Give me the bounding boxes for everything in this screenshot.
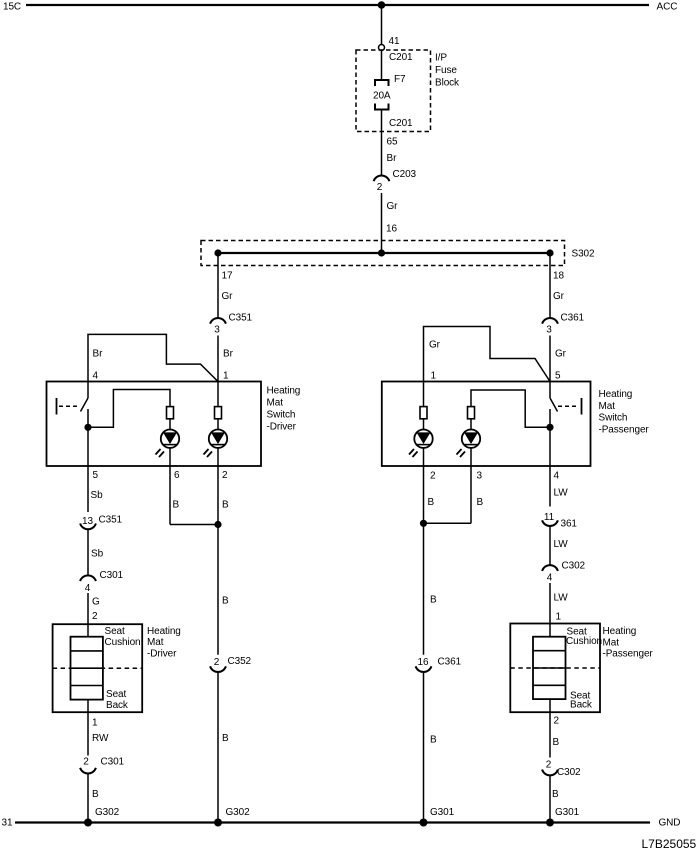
switch SW2 actuator T-bar [581,398,583,415]
svg-text:Cushion: Cushion [105,637,141,648]
resistor in pin 2 branch right [420,407,427,419]
svg-text:6: 6 [174,470,180,481]
svg-text:G301: G301 [430,807,455,818]
pin 41 terminal [379,45,385,51]
ground junction G302 driver switch [214,819,222,827]
svg-text:2: 2 [430,471,436,482]
svg-text:C203: C203 [393,169,417,180]
wire pin 6 down [169,466,171,525]
LED indicator pin 3 branch [457,430,481,458]
wire resistor to LED pin6 branch [169,419,171,430]
svg-text:-Driver: -Driver [267,422,297,433]
svg-text:Br: Br [93,349,104,360]
wire pin 4 into switch [87,382,89,399]
svg-text:C302: C302 [557,767,581,778]
svg-text:2: 2 [546,760,552,771]
svg-text:20A: 20A [373,91,391,102]
wire rail to pin 41 [381,5,383,45]
element divider 3 right [533,684,566,686]
wire pin 6 joins pin 2 [170,524,218,526]
wire C301-4 to seat mat, code G pin 2 [87,593,89,637]
wire pin 1 to resistor [217,382,219,407]
junction S302 right [546,249,553,256]
wire pin 4 to 361-11, code LW [549,466,551,507]
svg-text:4: 4 [554,471,560,482]
svg-text:Seat: Seat [106,689,126,700]
wire C351-13 to C301-4, code Sb [87,529,89,575]
svg-text:1: 1 [92,718,98,729]
heating mat driver outer box [53,624,143,712]
wire contact to pin 5 [87,427,89,466]
svg-text:Fuse: Fuse [435,65,457,76]
LED indicator pin 6 branch [156,430,180,458]
svg-text:GND: GND [659,818,681,829]
wire branch to pin 1 right, code Gr [424,327,551,382]
wire branch to pin 4, code Br [88,334,218,381]
svg-text:2: 2 [92,611,98,622]
svg-text:Heating: Heating [147,626,181,637]
wire fuse to C203, code 65 Br [381,110,383,176]
svg-text:3: 3 [477,471,483,482]
svg-text:31: 31 [2,818,13,829]
svg-text:B: B [92,789,99,800]
svg-text:2: 2 [554,716,560,727]
svg-text:L7B25055: L7B25055 [642,837,697,849]
switch SW1 blade [81,398,89,412]
svg-text:Back: Back [106,700,129,711]
switch SW2 actuator dashed link [558,405,579,407]
svg-text:C302: C302 [562,561,586,572]
svg-text:Switch: Switch [599,413,628,424]
switch SW2 blade [550,398,558,412]
wire C302-4 to seat mat, code LW pin 1 [549,583,551,637]
element divider 1 [71,650,103,652]
svg-text:Heating: Heating [267,386,301,397]
svg-text:5: 5 [555,371,561,382]
heating mat passenger element block [533,637,566,699]
connector C352 pin 2 [210,666,226,672]
svg-text:2: 2 [83,757,89,768]
junction S302 center [378,249,385,256]
svg-text:B: B [222,596,229,607]
svg-text:2: 2 [214,657,220,668]
svg-text:Gr: Gr [387,201,399,212]
ground junction G301 passenger switch [420,819,428,827]
junction at switch output right [546,424,553,431]
wire pin 5 into switch [549,382,551,399]
ground rail 31/GND [15,821,650,823]
svg-text:-Driver: -Driver [147,649,177,660]
junction at switch output [84,424,91,431]
svg-text:2: 2 [377,182,383,193]
connector C301 pin 2 [80,768,96,774]
svg-text:-Passenger: -Passenger [603,649,654,660]
svg-text:Gr: Gr [429,340,441,351]
wire pin 3 joins pin 2 [424,522,472,524]
wire pin 1 to resistor right [423,382,425,407]
svg-text:B: B [222,500,229,511]
svg-text:Mat: Mat [603,638,620,649]
svg-text:16: 16 [418,657,429,668]
wire C203 to S302, code Gr 16 [381,193,383,253]
svg-text:B: B [430,735,437,746]
power rail 15C/ACC [26,4,649,6]
wire S302 to C351, pin 17, code Gr [217,253,219,318]
svg-text:B: B [173,500,180,511]
svg-text:B: B [477,497,484,508]
dashed cushion/back split right [510,667,600,669]
heating mat switch passenger box [382,382,591,467]
svg-text:LW: LW [554,539,569,550]
LED indicator pin 2 branch [204,430,228,458]
svg-text:B: B [553,737,560,748]
svg-text:Switch: Switch [267,410,296,421]
svg-text:Heating: Heating [603,626,637,637]
svg-text:S302: S302 [572,249,595,260]
svg-text:G301: G301 [555,807,580,818]
svg-text:C352: C352 [228,656,252,667]
connector C302 pin 2 [542,770,558,776]
svg-text:1: 1 [223,371,229,382]
svg-text:3: 3 [546,325,552,336]
connector C351 pin 13 [80,524,96,530]
svg-text:Mat: Mat [267,398,284,409]
svg-text:41: 41 [389,36,400,47]
svg-text:ACC: ACC [657,2,678,13]
svg-text:1: 1 [431,371,437,382]
wire C302-2 to ground G301, code B [549,775,551,822]
svg-text:B: B [552,789,559,800]
element divider 2 right [533,667,566,669]
wire 361-11 to C302-4, code LW [549,526,551,565]
I/P fuse block dashed box [356,50,431,132]
LED indicator pin 2 branch right [409,430,433,458]
dashed cushion/back split [53,667,143,669]
svg-text:Mat: Mat [147,637,164,648]
junction pins 2+3 right [420,520,427,527]
svg-text:Sb: Sb [91,549,104,560]
fuse F7 20A [373,74,406,110]
svg-text:RW: RW [92,733,109,744]
connector 361 pin 11 [542,520,558,526]
wire C352 to ground G302, code B [217,672,219,823]
element divider 1 right [533,650,566,652]
svg-text:C351: C351 [99,515,123,526]
wire C301-2 to ground G302, code B [87,774,89,823]
resistor in pin 2 branch [215,407,222,419]
svg-text:B: B [430,595,437,606]
connector C351 pin 3 [210,318,226,324]
connector C302 pin 4 [542,565,558,571]
wire pin 2 down right, code B [423,466,425,655]
svg-text:C201: C201 [389,118,413,129]
svg-text:G: G [92,597,100,608]
svg-text:Br: Br [223,349,234,360]
splice S302 dashed box [201,241,565,266]
svg-text:16: 16 [386,224,397,235]
svg-text:Seat: Seat [105,626,125,637]
svg-text:11: 11 [544,512,555,523]
svg-text:18: 18 [553,271,564,282]
svg-text:1: 1 [556,612,562,623]
connector C361 pin 16 [416,666,432,672]
svg-text:C301: C301 [100,570,124,581]
svg-text:Cushion: Cushion [566,636,602,647]
switch SW1 actuator dashed link [59,405,80,407]
wire LED to pin 3 [470,448,472,466]
resistor in pin 3 branch [468,407,475,419]
svg-text:Block: Block [435,77,460,88]
wire resistor to LED pin2 branch [217,419,219,430]
svg-text:G302: G302 [95,807,120,818]
wire resistor to LED pin2 right [423,419,425,430]
switch SW1 actuator T-bar [56,398,58,415]
junction S302 left [214,249,221,256]
svg-text:-Passenger: -Passenger [599,424,650,435]
svg-text:C301: C301 [101,757,125,768]
wire LED to pin 6 [169,448,171,466]
wire S302 to C361, pin 18, code Gr [549,253,551,318]
wire pin41 to fuse [381,51,383,80]
svg-text:C201: C201 [389,52,413,63]
svg-text:13: 13 [82,516,93,527]
svg-text:LW: LW [554,593,569,604]
wire C361-16 to ground G301, code B [423,672,425,823]
svg-text:C351: C351 [229,313,253,324]
switch SW1 contact wire [87,409,89,427]
wire link switch to LED branch right [471,390,550,427]
svg-text:2: 2 [222,470,228,481]
wire pin 3 down, code B [470,466,472,523]
svg-text:Back: Back [570,700,593,711]
svg-text:15C: 15C [3,2,21,13]
resistor in pin 6 branch [167,407,174,419]
wire C351 to switch pin 1, code Br [217,336,219,382]
heating mat switch driver box [47,382,262,467]
svg-text:17: 17 [222,271,233,282]
wire LED to pin 2 right [423,448,425,466]
svg-text:Gr: Gr [555,349,567,360]
wire seat mat to C301-2, pin 1 code RW [87,700,89,756]
splice S302 bus wire [218,252,550,254]
wire link switch to LED branch [88,390,170,428]
ground junction G302 driver seat [84,819,92,827]
svg-text:Br: Br [387,153,398,164]
wire LED to pin 2 [217,448,219,466]
svg-text:4: 4 [93,371,99,382]
svg-text:C361: C361 [561,313,585,324]
junction pins 6+2 [214,521,221,528]
svg-text:B: B [428,497,435,508]
svg-text:5: 5 [93,470,99,481]
wire C361 to switch pin 5, code Gr [549,336,551,382]
wire resistor to LED pin3 branch [470,419,472,430]
element divider 2 [71,667,103,669]
wire seat mat to C302-2, pin 2 code B [549,699,551,757]
junction on power rail [378,1,386,9]
svg-text:4: 4 [547,573,553,584]
switch SW2 contact wire [549,409,551,427]
svg-text:Gr: Gr [222,291,234,302]
svg-text:Mat: Mat [599,401,616,412]
svg-text:3: 3 [214,325,220,336]
svg-text:G302: G302 [226,807,251,818]
ground junction G301 passenger seat [546,819,554,827]
svg-text:361: 361 [561,519,578,530]
svg-text:Sb: Sb [91,490,104,501]
svg-text:F7: F7 [394,74,406,85]
svg-text:B: B [222,733,229,744]
connector C203 pin 2 [374,175,390,181]
svg-text:LW: LW [554,488,569,499]
wire contact to pin 4 [549,427,551,466]
connector C361 pin 3 [542,318,558,324]
element divider 3 [71,685,103,687]
heating mat passenger outer box [510,624,600,713]
svg-text:4: 4 [85,583,91,594]
svg-text:Gr: Gr [553,291,565,302]
svg-text:Heating: Heating [599,389,633,400]
connector C301 pin 4 [80,575,96,581]
svg-text:65: 65 [387,137,398,148]
wire pin 2 down, code B [217,466,219,655]
heating mat driver element block [71,637,103,700]
wire pin 5 to C351-13, code Sb [87,466,89,512]
svg-text:C361: C361 [438,657,462,668]
svg-text:I/P: I/P [435,53,447,64]
